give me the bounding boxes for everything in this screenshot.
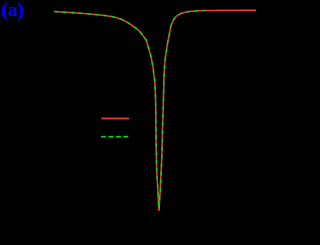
legend red solid line <box>102 118 130 120</box>
red tip overlay at dip minimum <box>158 208 160 210</box>
theory fit curve (green dashed), left branch to dip minimum <box>54 12 159 211</box>
svg-text:(a): (a) <box>1 0 24 21</box>
theory fit curve (green dashed), right branch from dip minimum <box>159 11 205 211</box>
legend green dashed line <box>101 136 128 138</box>
experimental transmission curve (red solid) <box>54 10 256 210</box>
